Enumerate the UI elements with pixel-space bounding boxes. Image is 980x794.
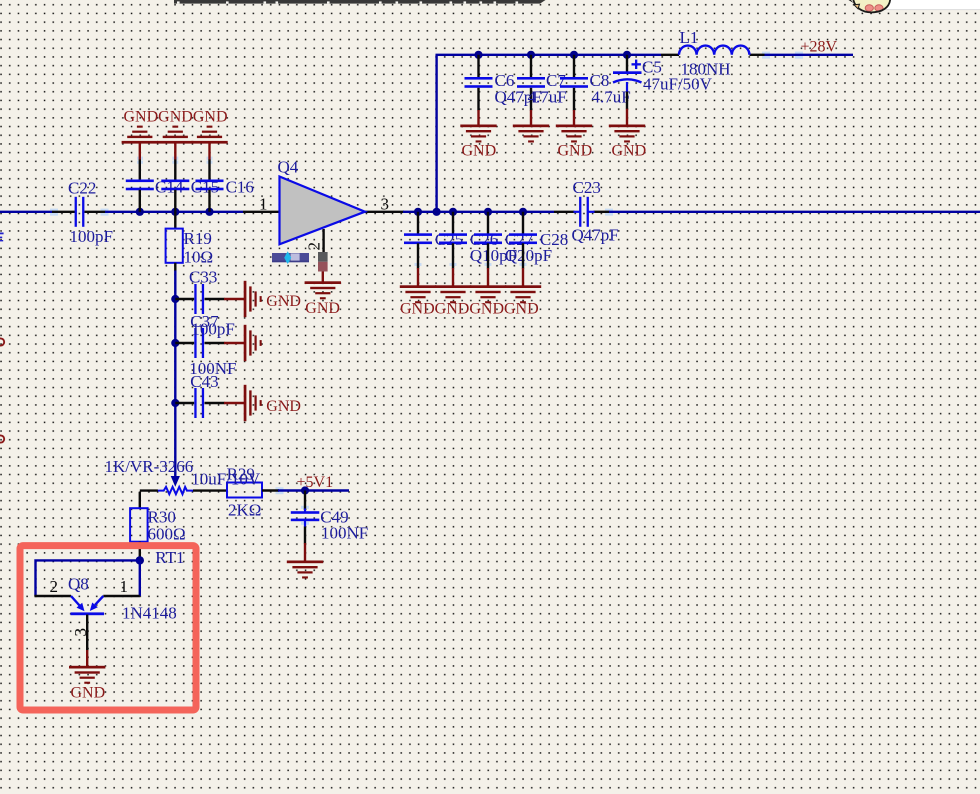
capacitor C28 — [509, 212, 568, 286]
svg-text:Q8: Q8 — [68, 575, 89, 594]
wire corner to R30 — [139, 492, 141, 509]
dual diode Q8 left anode — [71, 596, 80, 606]
R29 output lead — [262, 489, 279, 491]
left edge clipped maroon glyph — [0, 338, 4, 345]
wire main right — [609, 211, 980, 213]
svg-text:GNDGNDGNDGND: GNDGNDGNDGND — [400, 301, 539, 318]
svg-text:GND: GND — [266, 293, 301, 310]
left edge clipped blue text fragment — [0, 233, 4, 242]
ground under C28 — [505, 285, 541, 303]
wire to +5V1 — [278, 489, 349, 491]
svg-text:3: 3 — [71, 628, 90, 637]
Q8 pin 3 — [86, 615, 88, 651]
resistor R30 — [130, 508, 148, 542]
ground under C27 — [470, 285, 506, 303]
red highlight rectangle — [20, 546, 196, 710]
ground under C25 — [400, 285, 436, 303]
capacitor C23 — [579, 197, 589, 227]
svg-text:2: 2 — [305, 242, 324, 251]
ground under C6 — [460, 125, 496, 143]
svg-text:1: 1 — [259, 194, 268, 213]
svg-text:4.7uF: 4.7uF — [592, 88, 631, 107]
potentiometer RT wiper arrow — [171, 476, 180, 487]
dual diode Q8 right anode — [95, 596, 103, 605]
svg-text:C22: C22 — [68, 179, 96, 198]
svg-text:GND: GND — [71, 685, 106, 702]
Q4 pin 1 — [243, 211, 281, 213]
node junction C43 — [171, 399, 179, 407]
ground under C26 — [435, 285, 471, 303]
svg-text:R19: R19 — [184, 229, 212, 248]
svg-text:+5V1: +5V1 — [297, 474, 334, 491]
node junctions on main wire — [136, 208, 144, 216]
inverted ground 2 — [157, 126, 193, 144]
polarized capacitor C5 — [613, 55, 713, 125]
capacitor C26 — [439, 212, 517, 286]
ground under Q8 — [69, 666, 105, 684]
ground right of C37 — [244, 325, 262, 361]
svg-text:Q4: Q4 — [278, 158, 299, 177]
svg-text:47uF/50V: 47uF/50V — [643, 75, 713, 94]
capacitor C43 — [175, 359, 244, 418]
capacitor C33 — [175, 268, 244, 315]
svg-text:GNDGNDGND: GNDGNDGND — [124, 109, 228, 126]
net tie block under Q4 pin 2 — [318, 252, 328, 262]
capacitor C14 — [126, 143, 184, 212]
Q8 pin 1 lead — [103, 595, 140, 597]
svg-text:C23: C23 — [573, 178, 601, 197]
svg-text:2KΩ: 2KΩ — [228, 501, 261, 520]
svg-text:100NF: 100NF — [321, 524, 368, 543]
svg-text:10Ω: 10Ω — [184, 248, 214, 267]
potentiometer resistive element — [158, 487, 193, 494]
svg-text:GND: GND — [558, 143, 593, 160]
small colored toolbar fragment — [272, 251, 309, 264]
wire main mid — [105, 211, 243, 213]
node junction C33 — [171, 295, 179, 303]
ground under C49 — [287, 561, 323, 579]
Q4 pin 2 — [322, 229, 324, 253]
wire main after Q4 — [365, 211, 405, 213]
toolbar bottom edge at top — [174, 0, 540, 4]
dual diode Q8 cathode bar — [71, 612, 105, 615]
inverted ground 1 — [122, 126, 158, 144]
inductor L1 — [679, 46, 749, 55]
wire main left — [0, 211, 52, 213]
svg-text:600Ω: 600Ω — [148, 525, 186, 544]
ground right of C43 — [244, 385, 262, 421]
svg-text:GND: GND — [612, 143, 647, 160]
capacitor C22 pins — [52, 211, 75, 213]
capacitor C37 — [175, 312, 244, 358]
Q8 pin 2 lead — [34, 595, 71, 597]
capacitor C15 — [161, 143, 219, 212]
ground right of C33 — [244, 281, 262, 317]
ground under C5 — [609, 125, 645, 143]
svg-text:Q47pF: Q47pF — [572, 226, 619, 245]
svg-text:100pF: 100pF — [191, 320, 234, 339]
svg-text:4.7uF: 4.7uF — [528, 88, 567, 107]
node junction RT1 — [136, 556, 144, 564]
capacitor C6 — [465, 55, 542, 125]
inverted ground 3 — [191, 126, 227, 144]
svg-text:100pF: 100pF — [70, 227, 113, 246]
off-grid grip marks (light blue) — [50, 52, 803, 525]
amplifier Q4 — [280, 177, 366, 245]
svg-text:1K/VR-3266: 1K/VR-3266 — [105, 457, 194, 476]
svg-text:GND: GND — [305, 300, 340, 317]
node junction +5V1 — [301, 486, 309, 494]
svg-text:C28: C28 — [540, 230, 568, 249]
svg-text:2: 2 — [50, 577, 59, 596]
resistor R29 — [227, 483, 262, 498]
node junctions on rail — [474, 51, 482, 59]
svg-text:RT1: RT1 — [155, 548, 184, 567]
svg-text:10uF/10V: 10uF/10V — [191, 470, 261, 489]
svg-text:1N4148: 1N4148 — [122, 604, 177, 623]
capacitor C25 — [404, 212, 463, 286]
capacitor C7 — [517, 55, 567, 125]
ground under C8 — [556, 125, 592, 143]
svg-text:C16: C16 — [226, 178, 254, 197]
node junction C37 — [171, 339, 179, 347]
left edge clipped maroon glyph 2 — [0, 435, 4, 442]
ground under C7 — [513, 125, 549, 143]
svg-text:GND: GND — [266, 398, 301, 415]
wire L1 pin leads — [661, 54, 679, 56]
C23 pin leads — [554, 211, 575, 213]
wire rail right of L1 — [765, 54, 854, 56]
svg-text:+28V: +28V — [801, 39, 838, 56]
capacitor C27 — [474, 212, 552, 286]
svg-text:GND: GND — [462, 143, 497, 160]
pot pin leads — [140, 489, 158, 491]
wire vertical left column — [174, 271, 176, 478]
wire Q8 loop — [36, 560, 140, 596]
wire riser from main line to rail — [435, 55, 437, 212]
svg-text:C25: C25 — [435, 230, 463, 249]
capacitor C49 — [291, 491, 368, 562]
svg-text:C33: C33 — [189, 268, 217, 287]
svg-text:C43: C43 — [190, 372, 218, 391]
svg-text:1: 1 — [120, 577, 129, 596]
wire top rail — [436, 54, 662, 56]
resistor R19 — [174, 212, 176, 229]
svg-text:3: 3 — [381, 194, 390, 213]
capacitor C22 — [75, 197, 85, 227]
white strip top-right — [887, 0, 980, 9]
svg-text:L1: L1 — [680, 28, 699, 47]
capacitor C8 — [560, 55, 631, 125]
sticker chick bottom — [849, 0, 891, 12]
ground under Q4 pin 2 — [305, 281, 341, 299]
capacitor C16 — [196, 143, 254, 212]
